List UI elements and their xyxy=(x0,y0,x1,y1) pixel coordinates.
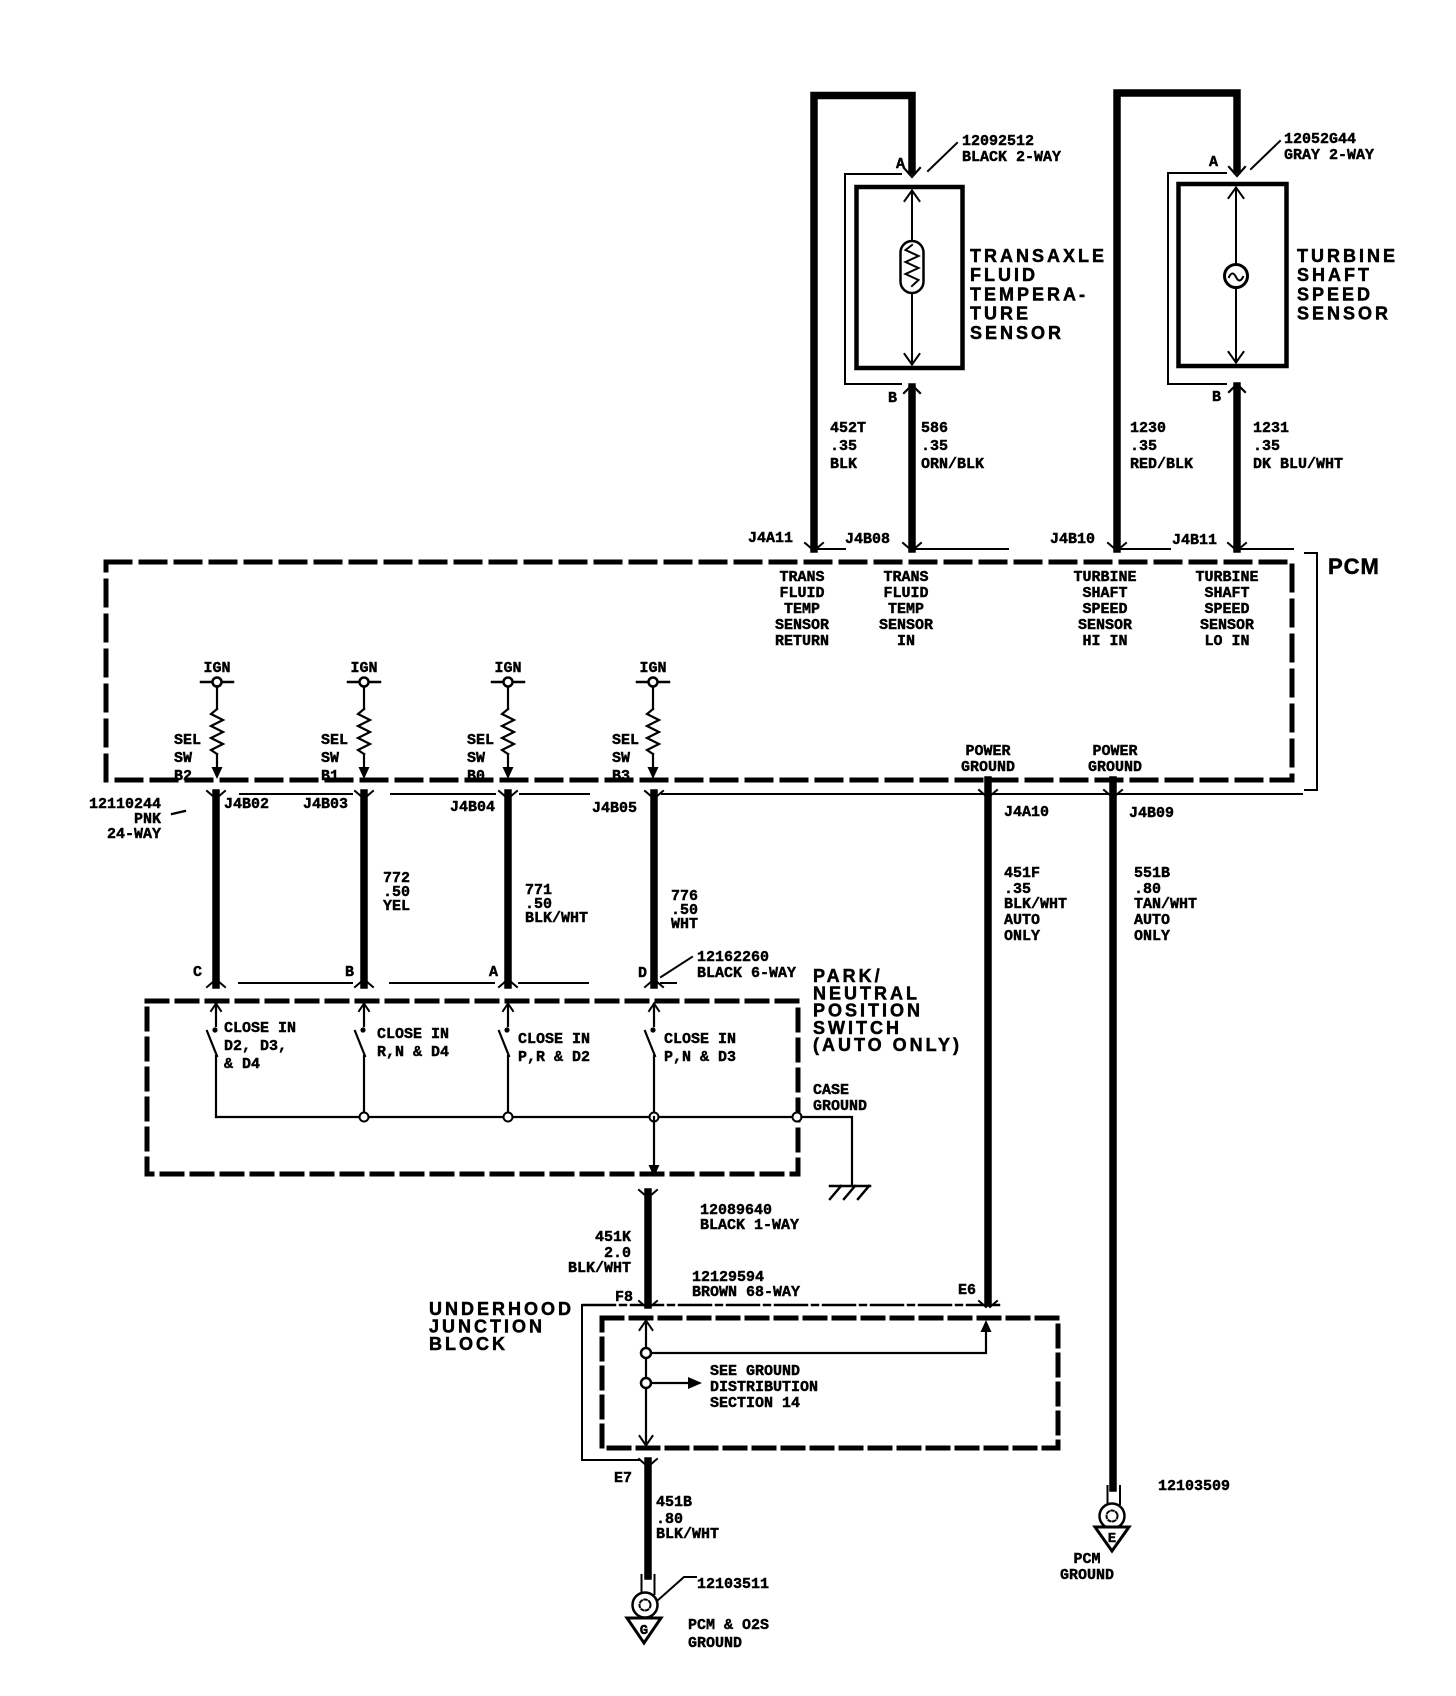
svg-text:586: 586 xyxy=(921,420,948,437)
svg-text:SENSOR: SENSOR xyxy=(1297,304,1391,324)
svg-text:J4B09: J4B09 xyxy=(1129,805,1174,822)
switch contact 4 xyxy=(653,1004,655,1026)
svg-text:E: E xyxy=(1108,1531,1116,1547)
connector pointer line (left sensor) xyxy=(928,143,957,171)
wire 451K 1-way to F8 xyxy=(644,1192,652,1305)
junction node D xyxy=(650,1113,659,1122)
speed sensor element (AC generator symbol) xyxy=(1225,265,1248,288)
svg-text:P,N & D3: P,N & D3 xyxy=(664,1049,736,1066)
svg-text:SPEED: SPEED xyxy=(1297,284,1373,304)
svg-text:D: D xyxy=(638,965,647,982)
svg-text:SENSOR: SENSOR xyxy=(1200,617,1254,634)
svg-text:J4B05: J4B05 xyxy=(592,800,637,817)
switch contact 2 xyxy=(363,1004,365,1026)
svg-text:PCM & O2S: PCM & O2S xyxy=(688,1617,769,1634)
sensor internal lead (right sensor) xyxy=(1235,188,1237,362)
svg-text:SW: SW xyxy=(174,750,192,767)
svg-text:B2: B2 xyxy=(174,768,192,785)
svg-text:& D4: & D4 xyxy=(224,1056,260,1073)
switch contact 3 xyxy=(507,1004,509,1026)
24-way connector edge line xyxy=(240,793,1302,795)
svg-text:SW: SW xyxy=(612,750,630,767)
svg-text:TEMPERA-: TEMPERA- xyxy=(970,284,1088,304)
svg-text:TRANS: TRANS xyxy=(883,569,928,586)
svg-text:LO IN: LO IN xyxy=(1204,633,1249,650)
svg-text:SECTION 14: SECTION 14 xyxy=(710,1395,800,1412)
svg-text:452T: 452T xyxy=(830,420,866,437)
wire pin D to 1-way connector xyxy=(653,1117,655,1167)
ground symbol G xyxy=(627,1618,661,1643)
svg-text:AUTO: AUTO xyxy=(1134,912,1170,929)
svg-text:451B: 451B xyxy=(656,1494,692,1511)
svg-text:D2, D3,: D2, D3, xyxy=(224,1038,287,1055)
wire 772 J4B03 to pin B xyxy=(360,793,368,985)
junction node A xyxy=(504,1113,513,1122)
resistor SEL SW B1 pull-up xyxy=(358,709,370,754)
68-way connector edge line xyxy=(583,1304,1000,1307)
svg-text:ORN/BLK: ORN/BLK xyxy=(921,456,984,473)
svg-text:GROUND: GROUND xyxy=(688,1635,742,1652)
svg-text:C: C xyxy=(193,964,202,981)
svg-text:TURBINE: TURBINE xyxy=(1073,569,1136,586)
wire IGN feed to resistor 2 xyxy=(363,687,365,710)
svg-text:J4B10: J4B10 xyxy=(1050,531,1095,548)
svg-text:SENSOR: SENSOR xyxy=(1078,617,1132,634)
thermistor (transaxle fluid temp sensing element) xyxy=(901,241,924,293)
svg-text:POWER: POWER xyxy=(965,743,1010,760)
svg-text:12103509: 12103509 xyxy=(1158,1478,1230,1495)
svg-text:B0: B0 xyxy=(467,768,485,785)
svg-text:J4B02: J4B02 xyxy=(224,796,269,813)
svg-text:GRAY 2-WAY: GRAY 2-WAY xyxy=(1284,147,1374,164)
connector pointer line (right sensor) xyxy=(1251,141,1280,169)
svg-text:1231: 1231 xyxy=(1253,420,1289,437)
ring terminal G xyxy=(642,1575,655,1594)
pointer tick (24-way label) xyxy=(172,811,185,814)
svg-text:BLK: BLK xyxy=(830,456,857,473)
svg-text:PCM: PCM xyxy=(1073,1551,1100,1568)
svg-text:SENSOR: SENSOR xyxy=(775,617,829,634)
connector bracket (left sensor) xyxy=(845,174,901,384)
svg-text:B3: B3 xyxy=(612,768,630,785)
resistor SEL SW B3 pull-up xyxy=(647,709,659,754)
svg-text:GROUND: GROUND xyxy=(961,759,1015,776)
junction block internal bus F8 to E7 xyxy=(645,1324,647,1442)
ring terminal E xyxy=(1108,1486,1121,1504)
svg-text:J4B08: J4B08 xyxy=(845,531,890,548)
svg-text:TURE: TURE xyxy=(970,304,1031,324)
wire resistor 2 to PCM pin xyxy=(363,754,365,768)
svg-text:IGN: IGN xyxy=(203,660,230,677)
svg-text:CLOSE IN: CLOSE IN xyxy=(664,1031,736,1048)
svg-text:SENSOR: SENSOR xyxy=(879,617,933,634)
svg-text:HI IN: HI IN xyxy=(1082,633,1127,650)
wire 1231 pin B to J4B11 xyxy=(1233,386,1241,549)
svg-text:IGN: IGN xyxy=(494,660,521,677)
svg-text:1230: 1230 xyxy=(1130,420,1166,437)
park/neutral position switch dashed box xyxy=(147,1001,798,1174)
svg-text:WHT: WHT xyxy=(671,916,698,933)
underhood junction block dashed box xyxy=(602,1318,1058,1448)
svg-text:AUTO: AUTO xyxy=(1004,912,1040,929)
wire SEL SW B2 J4B02 to pin C xyxy=(212,793,220,985)
svg-text:J4A10: J4A10 xyxy=(1004,804,1049,821)
svg-text:451F: 451F xyxy=(1004,865,1040,882)
6-way connector edge line xyxy=(239,982,676,984)
switch contact 1 xyxy=(215,1004,217,1026)
svg-text:12162260: 12162260 xyxy=(697,949,769,966)
svg-text:A: A xyxy=(896,156,905,173)
svg-text:FLUID: FLUID xyxy=(883,585,928,602)
svg-text:J4B04: J4B04 xyxy=(450,799,495,816)
svg-text:CLOSE IN: CLOSE IN xyxy=(377,1026,449,1043)
wire 586 pin B to J4B08 xyxy=(908,387,916,549)
junction node (to E6) xyxy=(641,1348,651,1358)
svg-text:ONLY: ONLY xyxy=(1004,928,1040,945)
connector pointer line (12103511) xyxy=(657,1577,696,1601)
svg-text:B: B xyxy=(888,390,897,407)
svg-text:551B: 551B xyxy=(1134,865,1170,882)
svg-text:SW: SW xyxy=(321,750,339,767)
svg-text:SEL: SEL xyxy=(174,732,201,749)
svg-text:TEMP: TEMP xyxy=(888,601,924,618)
svg-text:CLOSE IN: CLOSE IN xyxy=(518,1031,590,1048)
wire circuit 1230 J4B10 loop to pin A xyxy=(1117,93,1237,549)
pin feet at PCM top connector xyxy=(805,543,823,549)
svg-text:B1: B1 xyxy=(321,768,339,785)
svg-text:BLOCK: BLOCK xyxy=(429,1334,508,1354)
wire 551B J4B09 to PCM ground xyxy=(1109,780,1117,1488)
PCM top connector edge line xyxy=(818,548,1293,550)
pin A arrow (right sensor) xyxy=(1229,167,1245,176)
svg-text:BROWN 68-WAY: BROWN 68-WAY xyxy=(692,1284,800,1301)
svg-text:SEL: SEL xyxy=(612,732,639,749)
case ground pin node xyxy=(793,1113,802,1122)
junction node (to ground distribution) xyxy=(641,1378,651,1388)
svg-text:PCM: PCM xyxy=(1328,554,1380,579)
svg-text:SHAFT: SHAFT xyxy=(1204,585,1249,602)
svg-text:GROUND: GROUND xyxy=(813,1098,867,1115)
svg-text:TEMP: TEMP xyxy=(784,601,820,618)
sensor internal lead (left sensor) xyxy=(911,191,913,364)
svg-text:TRANS: TRANS xyxy=(779,569,824,586)
ground symbol E xyxy=(1095,1527,1129,1551)
svg-text:24-WAY: 24-WAY xyxy=(107,826,161,843)
svg-text:.35: .35 xyxy=(1130,438,1157,455)
svg-text:DISTRIBUTION: DISTRIBUTION xyxy=(710,1379,818,1396)
PCM connector bracket xyxy=(1305,553,1317,790)
svg-text:SW: SW xyxy=(467,750,485,767)
svg-text:ONLY: ONLY xyxy=(1134,928,1170,945)
transaxle fluid temperature sensor box xyxy=(857,187,963,368)
resistor SEL SW B0 pull-up xyxy=(502,709,514,754)
svg-text:BLACK 2-WAY: BLACK 2-WAY xyxy=(962,149,1061,166)
connector bracket (right sensor) xyxy=(1168,173,1226,384)
svg-text:TURBINE: TURBINE xyxy=(1297,246,1398,266)
svg-text:BLK/WHT: BLK/WHT xyxy=(1004,896,1067,913)
wire 771 J4B04 to pin A xyxy=(504,793,512,985)
svg-text:BLK/WHT: BLK/WHT xyxy=(525,910,588,927)
svg-text:TURBINE: TURBINE xyxy=(1195,569,1258,586)
svg-text:POWER: POWER xyxy=(1092,743,1137,760)
wire resistor 4 to PCM pin xyxy=(652,754,654,768)
wire IGN feed to resistor 1 xyxy=(216,687,218,710)
svg-text:G: G xyxy=(640,1623,648,1639)
svg-text:(AUTO ONLY): (AUTO ONLY) xyxy=(813,1035,962,1055)
svg-text:.35: .35 xyxy=(921,438,948,455)
wire 451F J4A10 to E6 xyxy=(984,780,992,1303)
svg-text:BLK/WHT: BLK/WHT xyxy=(568,1260,631,1277)
svg-text:E7: E7 xyxy=(614,1470,632,1487)
svg-text:B: B xyxy=(1212,389,1221,406)
svg-text:SPEED: SPEED xyxy=(1082,601,1127,618)
svg-text:12052G44: 12052G44 xyxy=(1284,131,1356,148)
svg-text:J4B11: J4B11 xyxy=(1172,532,1217,549)
wire IGN feed to resistor 3 xyxy=(507,687,509,710)
svg-text:DK BLU/WHT: DK BLU/WHT xyxy=(1253,456,1343,473)
svg-text:BLACK 6-WAY: BLACK 6-WAY xyxy=(697,965,796,982)
svg-text:.35: .35 xyxy=(830,438,857,455)
svg-text:A: A xyxy=(489,964,498,981)
junction node B xyxy=(360,1113,369,1122)
wire 776 J4B05 to pin D xyxy=(650,793,658,985)
svg-text:TRANSAXLE: TRANSAXLE xyxy=(970,246,1107,266)
svg-text:12092512: 12092512 xyxy=(962,133,1034,150)
svg-text:SHAFT: SHAFT xyxy=(1082,585,1127,602)
wire junction to E6 xyxy=(651,1330,986,1353)
wire 451B E7 to ground xyxy=(644,1461,652,1576)
svg-text:CLOSE IN: CLOSE IN xyxy=(224,1020,296,1037)
svg-text:GROUND: GROUND xyxy=(1060,1567,1114,1584)
svg-text:TAN/WHT: TAN/WHT xyxy=(1134,896,1197,913)
pin B hook (left sensor) xyxy=(904,385,920,393)
wire junction to ground distribution arrow xyxy=(651,1382,688,1384)
svg-text:GROUND: GROUND xyxy=(1088,759,1142,776)
wire resistor 1 to PCM pin xyxy=(216,754,218,768)
svg-text:CASE: CASE xyxy=(813,1082,849,1099)
svg-text:B: B xyxy=(345,964,354,981)
svg-text:YEL: YEL xyxy=(383,898,410,915)
svg-text:E6: E6 xyxy=(958,1282,976,1299)
svg-text:.35: .35 xyxy=(1253,438,1280,455)
switch common bus wire xyxy=(216,1116,792,1118)
wire circuit 452T J4A11 loop to pin A xyxy=(814,96,912,550)
svg-text:RETURN: RETURN xyxy=(775,633,829,650)
svg-text:SHAFT: SHAFT xyxy=(1297,265,1372,285)
svg-text:SEE GROUND: SEE GROUND xyxy=(710,1363,800,1380)
pin A arrow (left sensor) xyxy=(904,168,920,177)
svg-text:SEL: SEL xyxy=(467,732,494,749)
resistor SEL SW B2 pull-up xyxy=(211,709,223,754)
svg-text:A: A xyxy=(1209,154,1218,171)
svg-text:SPEED: SPEED xyxy=(1204,601,1249,618)
svg-text:BLACK 1-WAY: BLACK 1-WAY xyxy=(700,1217,799,1234)
svg-text:J4A11: J4A11 xyxy=(748,530,793,547)
svg-text:P,R & D2: P,R & D2 xyxy=(518,1049,590,1066)
svg-text:J4B03: J4B03 xyxy=(303,796,348,813)
svg-text:IN: IN xyxy=(897,633,915,650)
wire case ground xyxy=(802,1117,853,1186)
svg-text:SEL: SEL xyxy=(321,732,348,749)
svg-text:451K: 451K xyxy=(595,1229,631,1246)
wire resistor 3 to PCM pin xyxy=(507,754,509,768)
svg-text:FLUID: FLUID xyxy=(970,265,1038,285)
svg-text:FLUID: FLUID xyxy=(779,585,824,602)
svg-text:IGN: IGN xyxy=(639,660,666,677)
pin B hook (right sensor) xyxy=(1229,384,1245,392)
wire IGN feed to resistor 4 xyxy=(652,687,654,710)
svg-text:SENSOR: SENSOR xyxy=(970,323,1064,343)
svg-text:BLK/WHT: BLK/WHT xyxy=(656,1526,719,1543)
svg-text:IGN: IGN xyxy=(350,660,377,677)
turbine shaft speed sensor box xyxy=(1179,184,1287,366)
svg-text:R,N & D4: R,N & D4 xyxy=(377,1044,449,1061)
junction block connector bracket xyxy=(582,1305,640,1460)
svg-text:F8: F8 xyxy=(615,1289,633,1306)
connector pointer line (6-way) xyxy=(661,957,692,977)
svg-text:12103511: 12103511 xyxy=(697,1576,769,1593)
PCM module dashed box xyxy=(106,562,1292,780)
svg-text:RED/BLK: RED/BLK xyxy=(1130,456,1193,473)
case ground symbol xyxy=(830,1185,870,1188)
